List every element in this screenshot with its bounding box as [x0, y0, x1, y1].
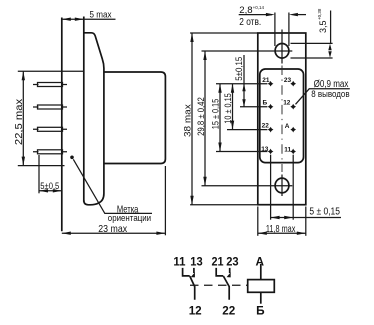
- svg-text:10 ± 0,15: 10 ± 0,15: [223, 93, 233, 123]
- contact 2 terminal 21: [216, 268, 223, 276]
- contact 2 terminal 23 arrowhead: [227, 272, 231, 277]
- contact 2 terminal 23: [229, 268, 231, 273]
- pin 2: [38, 105, 63, 109]
- svg-text:+0,38: +0,38: [317, 8, 322, 20]
- svg-text:22: 22: [222, 304, 235, 318]
- mechanical linkage (dashed): [190, 284, 248, 286]
- svg-text:5±0,5: 5±0,5: [40, 181, 59, 191]
- dimension 2,8 / 2 отв.: [239, 5, 306, 46]
- dimension 38 max: [182, 33, 257, 205]
- svg-text:11: 11: [173, 255, 186, 269]
- svg-text:3,5: 3,5: [318, 20, 328, 33]
- svg-text:11,8 max: 11,8 max: [266, 223, 296, 235]
- pin 21: [268, 81, 274, 87]
- svg-text:13: 13: [190, 255, 203, 269]
- top hole centerlines: [202, 30, 293, 64]
- svg-text:Б: Б: [263, 100, 268, 107]
- dimension 10 ± 0,15: [223, 84, 234, 130]
- svg-text:22,5 max: 22,5 max: [13, 98, 25, 145]
- svg-text:2 отв.: 2 отв.: [239, 17, 261, 28]
- svg-text:23 max: 23 max: [98, 223, 127, 235]
- pin 4: [38, 150, 63, 154]
- leader Ø0,9 max 8 выводов: [296, 79, 350, 104]
- svg-text:21: 21: [212, 255, 225, 269]
- svg-text:12: 12: [283, 100, 291, 107]
- pin 12: [290, 104, 296, 110]
- dimension 22,5 max: [13, 71, 84, 165]
- svg-text:23: 23: [284, 77, 292, 84]
- svg-text:5 ± 0,15: 5 ± 0,15: [309, 207, 340, 218]
- flange plate right edge: [83, 17, 85, 202]
- svg-text:ориентации: ориентации: [108, 213, 151, 224]
- coil lead A: [260, 264, 262, 280]
- dimension 5 ± 0,15 (columns): [271, 207, 341, 220]
- flange plate left edge: [61, 18, 63, 232]
- coil U1: [248, 280, 275, 293]
- svg-text:21: 21: [262, 77, 270, 84]
- pin 3: [38, 127, 63, 131]
- bottom hole centerlines: [202, 175, 293, 197]
- body (relay can): [104, 72, 165, 164]
- body outline (rounded): [260, 69, 304, 163]
- svg-text:22: 22: [262, 123, 270, 130]
- dimension 29,8 ± 0,42: [196, 51, 207, 186]
- skirt outline: [84, 33, 104, 205]
- dimension 5±0,15: [234, 55, 246, 107]
- svg-text:5±0,15: 5±0,15: [234, 57, 245, 81]
- svg-text:А: А: [285, 123, 290, 130]
- orientation mark dot: [70, 156, 74, 160]
- contact 1 armature: [190, 276, 195, 300]
- svg-text:2,8: 2,8: [239, 5, 252, 16]
- contact 1 terminal 11: [183, 268, 190, 276]
- pin 4 axis: [33, 151, 67, 153]
- svg-text:5 max: 5 max: [90, 10, 112, 21]
- contact 1 terminal 13: [193, 268, 195, 273]
- pin 23: [290, 81, 296, 87]
- dimension 11,8 max: [258, 207, 306, 236]
- bottom mounting hole: [275, 178, 289, 193]
- coil lead Б: [260, 292, 262, 303]
- dimension 15 ± 0,15: [211, 84, 222, 152]
- svg-text:38 max: 38 max: [182, 104, 192, 137]
- svg-text:12: 12: [189, 304, 202, 318]
- pin 22: [268, 127, 274, 133]
- svg-text:23: 23: [226, 255, 239, 269]
- dimension 23 max: [62, 166, 166, 235]
- svg-text:13: 13: [261, 146, 269, 153]
- pin Б: [268, 104, 274, 110]
- contact 1 terminal 13 arrowhead: [191, 272, 195, 277]
- svg-text:15 ± 0,15: 15 ± 0,15: [211, 99, 222, 129]
- svg-text:11: 11: [284, 146, 291, 153]
- pin 3 axis: [33, 128, 67, 130]
- pin 1: [38, 83, 63, 87]
- dimension 3,5: [291, 8, 333, 58]
- pin 2 axis: [33, 106, 67, 108]
- svg-text:29,8 ± 0,42: 29,8 ± 0,42: [196, 97, 207, 136]
- vertical centerline (dash-dot): [281, 66, 283, 173]
- flange rectangle: [258, 33, 306, 205]
- svg-text:Б: Б: [256, 304, 265, 318]
- orientation mark leader: [73, 159, 152, 213]
- svg-text:+0,14: +0,14: [253, 5, 265, 10]
- svg-text:8 выводов: 8 выводов: [311, 89, 349, 99]
- pin 1 axis: [33, 84, 67, 86]
- contact 2 armature: [223, 276, 229, 300]
- pin column extension lines: [270, 155, 272, 220]
- dimension 5±0,5: [39, 155, 62, 193]
- top mounting hole: [275, 44, 289, 59]
- dimension 5 max: [62, 10, 116, 21]
- pin 11: [290, 149, 296, 155]
- pin A: [290, 127, 296, 133]
- pin row extension lines: [216, 83, 267, 85]
- pin 13: [268, 149, 274, 155]
